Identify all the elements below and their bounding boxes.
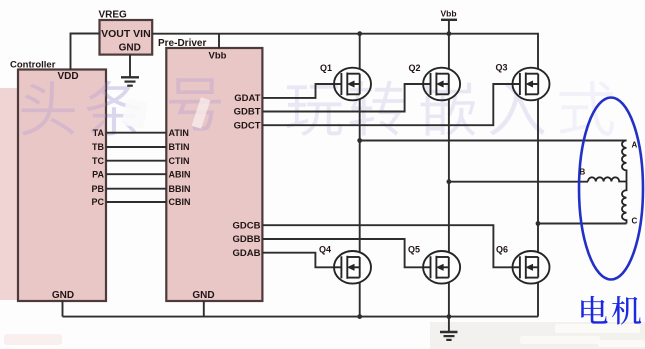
svg-text:PC: PC	[91, 197, 104, 207]
svg-text:TB: TB	[92, 142, 104, 152]
motor outline	[579, 98, 643, 280]
controller block U1	[10, 60, 142, 302]
svg-text:Vbb: Vbb	[440, 8, 456, 18]
wire PC to CBIN	[106, 201, 166, 203]
wire top Vbb bus	[152, 34, 538, 69]
svg-text:PB: PB	[91, 184, 104, 194]
svg-text:Pre-Driver: Pre-Driver	[158, 38, 206, 49]
junction bottom bus Q4	[357, 314, 362, 319]
ground symbol at VREG	[121, 77, 139, 85]
svg-text:CBIN: CBIN	[169, 197, 191, 207]
wire GDAB to Q4 gate	[262, 253, 334, 268]
junction phase C node	[536, 221, 541, 226]
wire pre-driver Vbb stub	[218, 34, 220, 48]
junction top bus Vbb Q2 drain	[447, 31, 452, 36]
junction top bus Q1 drain	[357, 31, 362, 36]
winding B	[588, 177, 627, 181]
regulator VREG	[99, 10, 153, 55]
ground symbol main	[440, 332, 458, 340]
svg-text:TA: TA	[93, 128, 105, 138]
wire PB to BBIN	[106, 188, 166, 190]
pre-driver block U2	[158, 38, 262, 301]
svg-text:PA: PA	[92, 169, 104, 179]
wire PA to ABIN	[106, 173, 166, 175]
wire Q2 source to Q5 drain	[448, 99, 450, 252]
svg-text:GND: GND	[52, 290, 74, 301]
transistor Q2	[423, 68, 460, 101]
wire VREG GND stub	[129, 55, 131, 77]
wire TC to CTIN	[106, 160, 166, 162]
wire main GND stub	[448, 317, 450, 332]
svg-text:Vbb: Vbb	[209, 51, 227, 62]
svg-text:GDAT: GDAT	[234, 93, 260, 104]
winding C	[622, 181, 627, 223]
label motor 电机	[581, 296, 641, 325]
winding A	[622, 140, 627, 181]
wire Q1 drain	[359, 34, 361, 69]
svg-text:TC: TC	[92, 156, 104, 166]
wire bottom ground bus	[63, 316, 539, 318]
junction phase B node	[447, 179, 452, 184]
wire pre-driver GND stub	[203, 301, 205, 317]
wire TB to BTIN	[106, 146, 166, 148]
wire GDAT to Q1 gate	[262, 84, 334, 98]
svg-text:Q1: Q1	[320, 63, 332, 73]
wire TA to ATIN	[106, 132, 166, 134]
wire phase C to motor	[538, 223, 627, 225]
transistor Q5	[423, 251, 460, 284]
junction phase A node	[357, 138, 362, 143]
svg-text:BBIN: BBIN	[169, 184, 191, 194]
wire GDCT to Q3 gate	[262, 84, 512, 125]
svg-text:C: C	[632, 217, 638, 226]
svg-text:CTIN: CTIN	[169, 156, 190, 166]
wire phase B to motor	[449, 181, 588, 183]
svg-text:ATIN: ATIN	[169, 128, 189, 138]
svg-text:GDAB: GDAB	[233, 248, 261, 259]
svg-text:A: A	[632, 141, 638, 150]
svg-text:Controller: Controller	[10, 60, 56, 71]
svg-text:GND: GND	[119, 43, 141, 54]
wire Q5 source	[448, 283, 450, 317]
svg-text:VDD: VDD	[57, 71, 78, 82]
svg-text:Q4: Q4	[319, 244, 331, 254]
svg-text:GDBT: GDBT	[234, 107, 261, 118]
wire controller GND stub	[62, 301, 64, 317]
wire GDCB to Q6 gate	[262, 225, 512, 267]
svg-text:B: B	[580, 168, 586, 177]
svg-text:Q5: Q5	[408, 244, 420, 254]
svg-text:GDCB: GDCB	[233, 220, 261, 231]
svg-text:VREG: VREG	[99, 10, 128, 21]
wire Vbb terminal to bus and Q2 drain	[448, 20, 450, 69]
svg-text:Q6: Q6	[496, 244, 508, 254]
svg-text:ABIN: ABIN	[169, 169, 191, 179]
wire Q6 source	[537, 283, 539, 317]
transistor Q6	[513, 251, 550, 284]
wire GDBT to Q2 gate	[262, 84, 423, 112]
wire Q3 source to Q6 drain	[537, 99, 539, 252]
svg-text:BTIN: BTIN	[169, 142, 190, 152]
wire Q4 source	[359, 283, 361, 317]
svg-text:Q3: Q3	[496, 62, 508, 72]
junction bottom bus Q5 GND	[447, 314, 452, 319]
transistor Q3	[513, 68, 550, 101]
wire GDBB to Q5 gate	[262, 239, 423, 267]
wire phase A to motor	[360, 140, 627, 142]
wire VREG VOUT to controller VDD	[71, 34, 100, 70]
transistor Q4	[334, 251, 371, 284]
svg-text:VOUT VIN: VOUT VIN	[101, 28, 151, 40]
svg-text:Q2: Q2	[409, 63, 421, 73]
transistor Q1	[334, 68, 371, 101]
supply Vbb terminal	[440, 8, 457, 20]
wire Q1 source to Q4 drain	[359, 99, 361, 252]
svg-text:GDBB: GDBB	[233, 234, 261, 245]
svg-text:GND: GND	[192, 290, 214, 301]
svg-text:GDCT: GDCT	[234, 120, 261, 131]
